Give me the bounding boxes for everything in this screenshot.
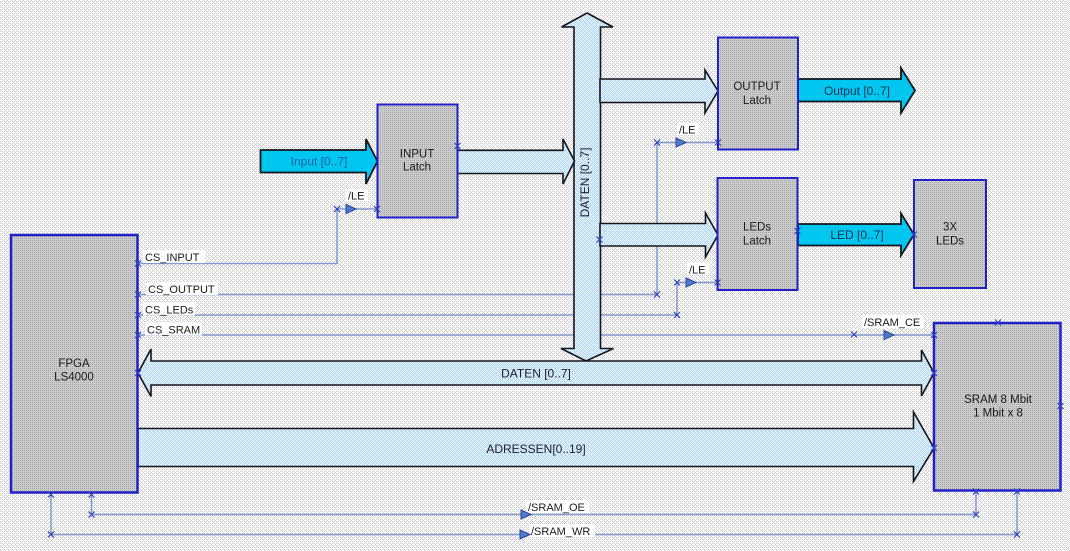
svg-text:FPGA: FPGA xyxy=(58,358,90,370)
svg-text:Output [0..7]: Output [0..7] xyxy=(824,84,890,98)
svg-text:/LE: /LE xyxy=(679,125,696,137)
bus arrow Input [0..7] xyxy=(261,139,378,184)
svg-text:DATEN [0..7]: DATEN [0..7] xyxy=(578,148,592,218)
block SRAM 8 Mbit xyxy=(934,323,1061,491)
svg-text:CS_INPUT: CS_INPUT xyxy=(145,252,200,264)
wire /SRAM_WR xyxy=(51,491,1017,535)
wire /SRAM_OE xyxy=(92,491,977,515)
block INPUT Latch xyxy=(378,105,458,218)
svg-text:1 Mbit x 8: 1 Mbit x 8 xyxy=(973,408,1023,420)
block OUTPUT Latch xyxy=(718,38,798,150)
svg-text:/SRAM_WR: /SRAM_WR xyxy=(531,526,590,538)
svg-text:OUTPUT: OUTPUT xyxy=(733,81,780,93)
svg-text:LEDs: LEDs xyxy=(936,236,964,248)
wire arrow glyph SRAM_CE xyxy=(884,331,894,340)
block FPGA LS4000 xyxy=(11,235,138,493)
label /LE input latch xyxy=(346,189,368,201)
wire CS_INPUT xyxy=(138,209,377,264)
wire arrow glyph SRAM_OE xyxy=(521,510,531,519)
svg-text:CS_LEDs: CS_LEDs xyxy=(145,305,194,317)
svg-text:Input [0..7]: Input [0..7] xyxy=(291,155,348,169)
label /SRAM_OE xyxy=(526,500,589,513)
bus arrow DATEN horizontal double xyxy=(138,349,934,397)
wire arrow glyph LE input xyxy=(346,205,356,214)
bus arrow DATEN vertical xyxy=(561,13,614,361)
bus arrow DATEN to OUTPUT latch xyxy=(600,70,718,113)
svg-text:Latch: Latch xyxy=(743,236,771,248)
svg-text:/SRAM_CE: /SRAM_CE xyxy=(864,317,920,329)
wire CS_OUTPUT xyxy=(138,143,718,295)
svg-text:/LE: /LE xyxy=(348,191,365,203)
svg-text:INPUT: INPUT xyxy=(400,149,435,161)
label CS_OUTPUT xyxy=(146,282,218,295)
label /SRAM_CE xyxy=(862,315,924,328)
junction marks xyxy=(135,261,141,267)
bus arrow LED [0..7] xyxy=(798,213,914,255)
label CS_SRAM xyxy=(145,323,202,336)
svg-text:SRAM 8 Mbit: SRAM 8 Mbit xyxy=(964,394,1033,406)
wire CS_SRAM xyxy=(138,334,934,336)
svg-text:CS_SRAM: CS_SRAM xyxy=(147,325,200,337)
wire CS_LEDs xyxy=(138,283,718,316)
label /SRAM_WR xyxy=(529,524,595,537)
wire arrow glyph LE leds xyxy=(686,278,696,287)
bus arrow Output [0..7] xyxy=(798,68,915,113)
svg-text:Latch: Latch xyxy=(743,95,771,107)
svg-text:CS_OUTPUT: CS_OUTPUT xyxy=(148,284,215,296)
bus arrow ADRESSEN xyxy=(138,412,934,482)
svg-text:LED [0..7]: LED [0..7] xyxy=(830,228,883,242)
label /LE output latch xyxy=(677,123,699,135)
svg-text:DATEN [0..7]: DATEN [0..7] xyxy=(501,367,571,381)
label CS_LEDs xyxy=(143,303,195,316)
label /LE leds latch xyxy=(687,263,709,275)
block 3X LEDs xyxy=(914,180,986,288)
wire arrow glyph SRAM_WR xyxy=(520,530,530,539)
svg-text:ADRESSEN[0..19]: ADRESSEN[0..19] xyxy=(486,442,585,456)
bus arrow DATEN to LEDs latch xyxy=(600,213,718,257)
label CS_INPUT xyxy=(143,250,205,263)
svg-text:LEDs: LEDs xyxy=(743,222,771,234)
svg-text:/LE: /LE xyxy=(689,265,706,277)
bus arrow INPUT latch to DATEN xyxy=(458,139,575,184)
svg-text:LS4000: LS4000 xyxy=(54,372,94,384)
svg-text:/SRAM_OE: /SRAM_OE xyxy=(528,502,585,514)
wire arrow glyph LE output xyxy=(676,138,686,147)
svg-text:Latch: Latch xyxy=(403,162,431,174)
svg-text:3X: 3X xyxy=(943,222,957,234)
block LEDs Latch xyxy=(718,178,798,290)
